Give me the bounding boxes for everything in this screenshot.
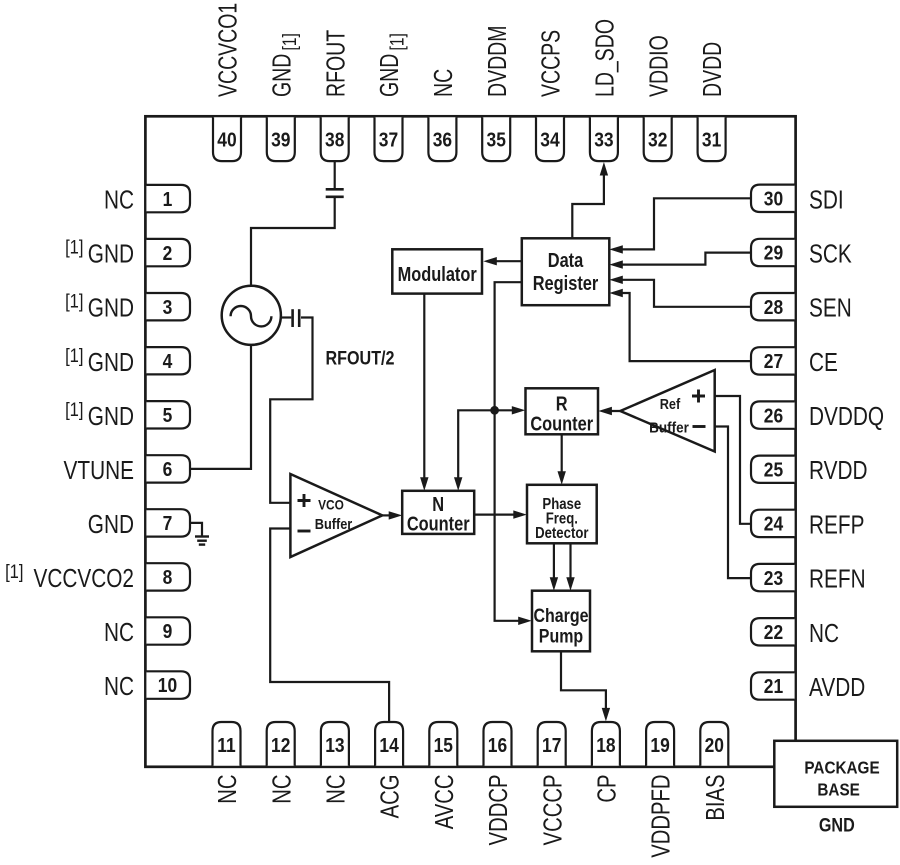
svg-text:12: 12 <box>271 735 290 758</box>
svg-text:VCCCP: VCCCP <box>538 775 567 846</box>
svg-text:Data: Data <box>548 248 584 271</box>
svg-text:[1]: [1] <box>5 561 23 583</box>
svg-text:GND: GND <box>819 814 855 836</box>
svg-text:3: 3 <box>163 297 173 320</box>
svg-text:21: 21 <box>764 676 784 699</box>
svg-text:VCCVCO1: VCCVCO1 <box>213 3 242 97</box>
svg-text:GND: GND <box>88 239 134 268</box>
svg-text:NC: NC <box>104 618 134 647</box>
svg-text:16: 16 <box>488 735 507 758</box>
svg-text:VDDIO: VDDIO <box>644 35 673 97</box>
svg-text:SEN: SEN <box>809 294 852 323</box>
svg-text:6: 6 <box>163 459 173 482</box>
svg-text:14: 14 <box>379 735 399 758</box>
svg-text:17: 17 <box>542 735 561 758</box>
svg-text:24: 24 <box>764 513 784 536</box>
svg-text:GND: GND <box>88 348 134 377</box>
svg-text:10: 10 <box>158 675 177 698</box>
svg-text:NC: NC <box>104 185 134 214</box>
svg-text:34: 34 <box>540 129 560 152</box>
svg-text:GND: GND <box>88 402 134 431</box>
svg-text:[1]: [1] <box>65 399 83 421</box>
svg-text:5: 5 <box>163 405 173 428</box>
svg-text:39: 39 <box>271 129 290 152</box>
svg-text:AVDD: AVDD <box>809 673 865 702</box>
svg-text:7: 7 <box>163 513 173 536</box>
svg-text:Ref: Ref <box>660 395 681 412</box>
svg-text:[1]: [1] <box>386 33 408 50</box>
svg-text:33: 33 <box>594 129 613 152</box>
svg-text:26: 26 <box>764 405 783 428</box>
svg-text:ACG: ACG <box>375 775 404 819</box>
svg-text:Buffer: Buffer <box>315 515 353 532</box>
svg-text:VTUNE: VTUNE <box>64 456 134 485</box>
svg-text:Charge: Charge <box>533 605 588 627</box>
svg-text:Counter: Counter <box>530 412 593 435</box>
svg-text:Modulator: Modulator <box>398 262 477 285</box>
svg-text:NC: NC <box>809 619 839 648</box>
svg-text:[1]: [1] <box>65 236 83 258</box>
svg-text:VCCPS: VCCPS <box>536 30 565 97</box>
svg-text:Buffer: Buffer <box>649 420 689 437</box>
svg-text:CE: CE <box>809 348 838 377</box>
svg-text:38: 38 <box>325 129 344 152</box>
svg-text:RFOUT/2: RFOUT/2 <box>325 347 394 369</box>
svg-text:20: 20 <box>705 735 724 758</box>
svg-text:GND: GND <box>88 510 134 539</box>
svg-text:4: 4 <box>163 351 173 374</box>
svg-text:9: 9 <box>163 621 173 644</box>
svg-text:SDI: SDI <box>809 185 844 214</box>
svg-text:2: 2 <box>163 243 173 266</box>
svg-text:BIAS: BIAS <box>700 775 729 821</box>
svg-text:NC: NC <box>267 775 296 804</box>
svg-text:RVDD: RVDD <box>809 456 868 485</box>
svg-text:15: 15 <box>434 735 454 758</box>
svg-text:REFP: REFP <box>809 510 864 539</box>
svg-text:22: 22 <box>764 622 783 645</box>
svg-text:GND: GND <box>374 54 403 97</box>
svg-text:VDDPFD: VDDPFD <box>646 775 675 858</box>
svg-text:31: 31 <box>702 129 722 152</box>
svg-text:25: 25 <box>764 459 784 482</box>
svg-text:DVDDM: DVDDM <box>482 26 511 97</box>
svg-text:18: 18 <box>596 735 615 758</box>
svg-text:DVDD: DVDD <box>697 42 726 97</box>
svg-text:VDDCP: VDDCP <box>484 775 513 846</box>
svg-text:NC: NC <box>213 775 242 804</box>
svg-text:29: 29 <box>764 242 783 265</box>
svg-text:8: 8 <box>163 567 173 590</box>
svg-text:LD_SDO: LD_SDO <box>590 19 619 97</box>
svg-text:SCK: SCK <box>809 239 852 268</box>
svg-text:[1]: [1] <box>65 290 83 312</box>
svg-text:AVCC: AVCC <box>429 775 458 830</box>
svg-text:DVDDQ: DVDDQ <box>809 402 884 431</box>
svg-text:CP: CP <box>592 775 621 803</box>
svg-text:Counter: Counter <box>407 512 470 535</box>
svg-text:23: 23 <box>764 568 783 591</box>
svg-text:27: 27 <box>764 351 783 374</box>
svg-text:[1]: [1] <box>65 345 83 367</box>
svg-text:NC: NC <box>428 69 457 97</box>
svg-text:Detector: Detector <box>535 525 589 542</box>
svg-text:RFOUT: RFOUT <box>321 30 350 97</box>
svg-text:19: 19 <box>650 735 669 758</box>
svg-text:32: 32 <box>648 129 667 152</box>
svg-text:36: 36 <box>433 129 452 152</box>
svg-text:REFN: REFN <box>809 564 866 593</box>
svg-text:37: 37 <box>379 129 398 152</box>
svg-text:NC: NC <box>321 775 350 804</box>
svg-text:GND: GND <box>88 294 134 323</box>
svg-text:13: 13 <box>325 735 344 758</box>
svg-text:NC: NC <box>104 672 134 701</box>
svg-text:40: 40 <box>217 129 236 152</box>
svg-text:Pump: Pump <box>539 625 584 647</box>
svg-text:1: 1 <box>163 189 173 212</box>
svg-text:30: 30 <box>764 188 783 211</box>
svg-text:GND: GND <box>267 54 296 97</box>
svg-text:11: 11 <box>217 735 236 758</box>
svg-text:PACKAGE: PACKAGE <box>804 757 879 777</box>
svg-text:VCO: VCO <box>318 497 344 513</box>
svg-text:28: 28 <box>764 297 783 320</box>
svg-text:BASE: BASE <box>817 780 859 800</box>
svg-text:Register: Register <box>533 271 599 294</box>
svg-text:35: 35 <box>487 129 507 152</box>
svg-text:[1]: [1] <box>279 33 301 50</box>
svg-text:VCCVCO2: VCCVCO2 <box>33 564 134 593</box>
